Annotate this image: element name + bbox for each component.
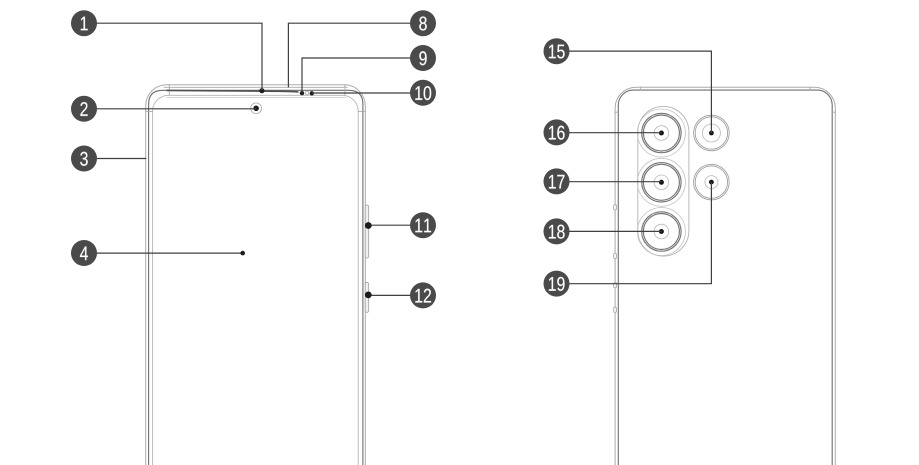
dot for label 12 (365, 292, 372, 299)
callout line 19 (557, 182, 712, 284)
antenna tick front left edge (145, 110, 153, 112)
label 19 (544, 271, 570, 297)
display active area top line (167, 96, 347, 98)
back phone outer body (615, 87, 835, 465)
label 1 (71, 10, 97, 36)
callout line 17 (557, 181, 662, 183)
label 18 (544, 218, 570, 244)
label 17 (544, 168, 570, 194)
label 16 (544, 119, 570, 145)
antenna tick front right edge (358, 110, 366, 112)
front screen outline (153, 95, 359, 465)
dot for label 4 (240, 251, 245, 256)
rear lens L3 (target of 18) (637, 208, 685, 256)
antenna tick back left edge (615, 111, 619, 113)
rear lens L1 (target of 16) (637, 109, 685, 157)
callout line 10 (312, 92, 423, 94)
rear small camera bottom (target of 19) (694, 164, 730, 200)
power button (365, 282, 369, 312)
label 2 (71, 96, 97, 122)
label 12 (410, 282, 436, 308)
antenna tick back right edge (832, 111, 836, 113)
front camera ring (251, 103, 262, 114)
callout line 11 (368, 224, 423, 226)
callout line 8 (288, 23, 423, 87)
antenna tick back top-right (809, 87, 811, 91)
front phone inner frame line (149, 90, 363, 465)
dot for label 11 (365, 222, 372, 229)
front phone outer body (146, 85, 366, 465)
front camera dot (target of label 2) (253, 106, 259, 112)
back volume button (614, 205, 617, 210)
label 4 (71, 240, 97, 266)
mic dot (target of label 1) (259, 88, 264, 93)
label 15 (544, 38, 570, 64)
earpiece speaker slot (167, 90, 299, 92)
label 11 (410, 212, 436, 238)
front frame top surface line (164, 86, 348, 88)
callout line 2 (84, 108, 256, 110)
callout line 16 (557, 132, 662, 134)
antenna tick front top-left (168, 84, 170, 95)
sensor dot (target of label 9) (300, 91, 304, 95)
sensor dot (target of label 10) (310, 91, 314, 95)
rear lens L2 (target of 17) (637, 158, 685, 206)
label 3 (71, 146, 97, 172)
callout line 9 (302, 58, 423, 93)
antenna tick front top-right (344, 84, 346, 95)
camera module (638, 106, 689, 256)
label 10 (410, 80, 436, 106)
callout line 1 (84, 23, 262, 91)
label 9 (410, 45, 436, 71)
back power button (614, 283, 617, 288)
volume button (365, 205, 369, 258)
antenna tick back top-left (639, 87, 641, 91)
callout line 18 (557, 230, 662, 232)
callout line 4 (84, 252, 243, 254)
tiny sensor ellipse (305, 91, 308, 94)
rear small camera top (target of 15) (694, 115, 730, 151)
callout line 15 (557, 51, 712, 133)
callout line 12 (368, 294, 423, 296)
label 8 (410, 10, 436, 36)
back phone inner frame line (618, 90, 832, 465)
callout line 3 (84, 158, 146, 160)
